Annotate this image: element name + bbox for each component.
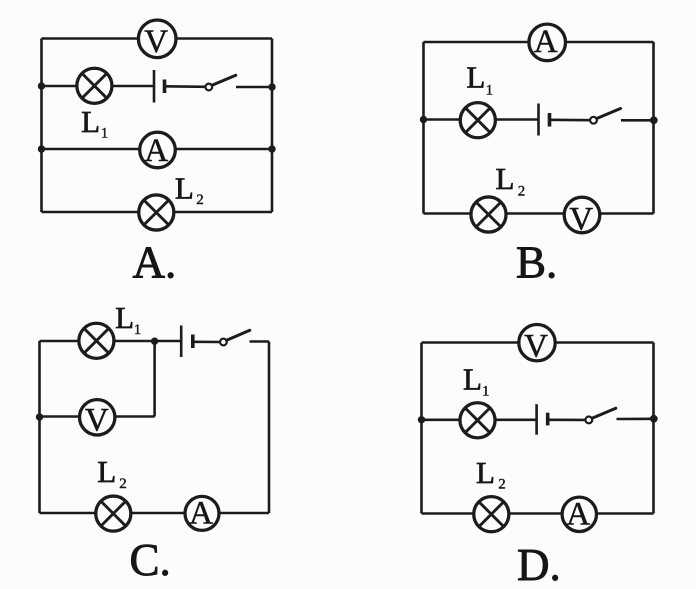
ammeter A (circuit B) <box>529 24 566 61</box>
battery (circuit A): short plate <box>163 80 167 94</box>
svg-text:L: L <box>476 455 495 490</box>
svg-text:L: L <box>175 171 194 206</box>
wire: C battery to switch pivot <box>193 340 221 343</box>
svg-text:2: 2 <box>119 476 127 492</box>
svg-text:A.: A. <box>133 237 177 287</box>
switch (circuit C): blade <box>227 330 250 340</box>
svg-text:A: A <box>144 133 168 169</box>
battery (circuit B): long plate <box>537 104 540 136</box>
switch (circuit A): pivot <box>205 84 212 91</box>
switch (circuit D): pivot <box>585 417 592 424</box>
wire: B left side <box>422 42 425 214</box>
svg-text:B.: B. <box>516 238 557 288</box>
wire: B right side <box>652 42 655 214</box>
lamp L2 (circuit A) <box>139 195 174 230</box>
wire: A branch 1, switch fixed contact to right side <box>236 86 272 89</box>
wire: B middle branch left part <box>424 118 539 121</box>
svg-text:L: L <box>496 161 515 196</box>
svg-text:L: L <box>81 104 100 139</box>
switch (circuit D): blade <box>592 408 616 418</box>
wire: D top side <box>422 341 654 344</box>
svg-text:L: L <box>115 300 134 335</box>
svg-text:1: 1 <box>482 383 490 399</box>
svg-text:1: 1 <box>101 125 109 141</box>
switch (circuit B): pivot <box>590 117 597 124</box>
svg-text:V: V <box>85 403 109 439</box>
svg-text:2: 2 <box>518 183 526 199</box>
wire: A left side <box>40 39 43 213</box>
wire: B branch, battery to switch pivot <box>550 119 591 122</box>
svg-text:A: A <box>534 24 558 60</box>
lamp L1 (circuit B) <box>460 103 495 138</box>
junction dot B right <box>650 116 658 124</box>
wire: B top side <box>424 41 654 44</box>
wire: D right side <box>652 343 655 514</box>
ammeter A (circuit A) <box>140 132 176 169</box>
junction dot D right <box>650 415 658 423</box>
lamp L1 (circuit C) <box>79 323 114 358</box>
wire: C switch fixed contact to top-right corner <box>250 340 270 343</box>
switch (circuit A): blade <box>212 75 236 85</box>
battery (circuit D): long plate <box>535 404 538 435</box>
ammeter A (circuit D) <box>562 496 596 532</box>
junction dot C left (voltmeter branch) <box>36 413 43 420</box>
lamp L2 (circuit D) <box>474 497 509 532</box>
battery (circuit C): long plate <box>180 326 183 358</box>
svg-text:2: 2 <box>196 192 204 208</box>
wire: C bottom side <box>40 512 270 515</box>
switch (circuit B): blade <box>597 109 621 119</box>
lamp L1 (circuit A) <box>77 68 112 103</box>
voltmeter V (circuit B) <box>564 197 600 237</box>
wire: A middle branch 2 (ammeter) <box>42 148 273 151</box>
wire: C right side <box>268 342 271 514</box>
svg-text:C.: C. <box>130 535 171 585</box>
ammeter A (circuit C) <box>185 495 219 531</box>
junction dot A left branch1 <box>38 82 45 89</box>
wire: A middle branch 1 (lamp-battery-switch) left part <box>42 85 155 88</box>
svg-text:2: 2 <box>498 476 506 492</box>
svg-text:L: L <box>466 60 485 95</box>
svg-text:V: V <box>569 201 593 237</box>
wire: A bottom side <box>42 211 273 214</box>
wire: A branch 1, battery to switch pivot <box>165 85 206 88</box>
wire: D branch, switch fixed contact to right side <box>617 417 654 420</box>
battery (circuit C): short plate <box>191 335 195 349</box>
wire: D bottom side <box>422 512 654 515</box>
wire: C vertical from top junction to voltmeter branch <box>153 341 156 417</box>
wire: D middle branch left part <box>422 418 537 421</box>
wire: C top side (lamp to battery to switch) <box>40 340 182 343</box>
svg-text:V: V <box>524 328 548 364</box>
svg-text:V: V <box>144 24 168 60</box>
lamp L1 (circuit D) <box>460 403 495 438</box>
junction dot A right branch2 <box>268 145 275 152</box>
wire: A right side <box>271 39 274 213</box>
wire: B branch, switch fixed contact to right side <box>621 119 654 122</box>
battery (circuit A): long plate <box>153 70 156 103</box>
voltmeter V (circuit C) <box>80 400 115 439</box>
svg-text:L: L <box>463 361 482 396</box>
svg-text:1: 1 <box>486 82 494 98</box>
lamp L2 (circuit B) <box>471 197 506 232</box>
voltmeter V (circuit A) <box>138 20 176 60</box>
lamp L2 (circuit C) <box>96 496 131 531</box>
svg-text:1: 1 <box>134 322 142 338</box>
battery (circuit D): short plate <box>546 413 550 426</box>
junction dot B left <box>420 116 427 123</box>
svg-text:A: A <box>189 495 213 531</box>
wire: B bottom side <box>424 212 654 215</box>
svg-text:D.: D. <box>517 540 561 589</box>
wire: D branch, battery to switch pivot <box>548 418 586 421</box>
switch (circuit C): pivot <box>220 339 227 346</box>
junction dot A right branch1 <box>268 83 275 90</box>
junction dot D left <box>418 416 425 423</box>
wire: D left side <box>420 343 423 514</box>
junction dot C top <box>151 338 158 345</box>
battery (circuit B): short plate <box>548 113 552 127</box>
svg-text:L: L <box>97 454 116 489</box>
wire: C left side <box>38 341 41 513</box>
svg-text:A: A <box>566 496 590 532</box>
wire: C voltmeter branch <box>40 415 155 418</box>
voltmeter V (circuit D) <box>519 325 555 365</box>
wire: A top side <box>42 37 273 40</box>
junction dot A left branch2 <box>38 145 45 152</box>
